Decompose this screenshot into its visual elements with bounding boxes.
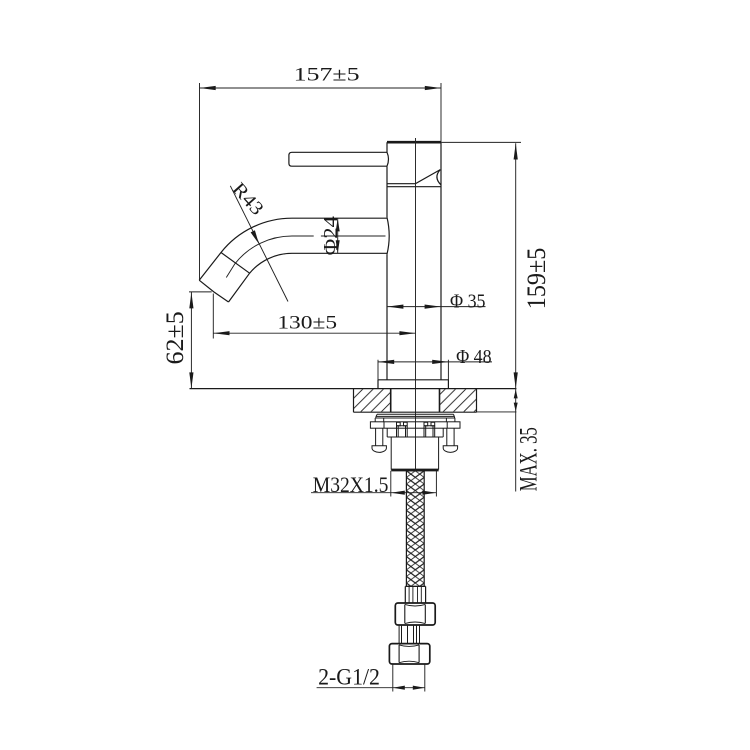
- svg-text:130±5: 130±5: [277, 312, 337, 333]
- svg-text:Φ24: Φ24: [320, 216, 342, 255]
- svg-text:62±5: 62±5: [162, 311, 189, 364]
- svg-text:M32X1.5: M32X1.5: [313, 472, 389, 497]
- svg-text:Φ 35: Φ 35: [450, 290, 486, 312]
- svg-text:2-G1/2: 2-G1/2: [318, 665, 380, 690]
- svg-text:159±5: 159±5: [521, 248, 551, 310]
- svg-text:MAX. 35: MAX. 35: [516, 427, 543, 491]
- svg-text:157±5: 157±5: [294, 65, 360, 86]
- svg-text:Φ 48: Φ 48: [456, 346, 492, 368]
